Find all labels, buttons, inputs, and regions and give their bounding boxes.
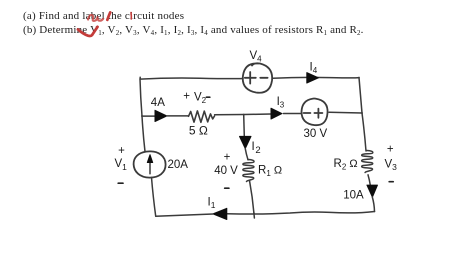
arrow 4A	[155, 110, 167, 121]
wire right vertical upper	[359, 78, 362, 114]
wire row2 segment a	[142, 115, 155, 117]
20A arrow inside	[149, 162, 151, 174]
svg-text:V3: V3	[385, 158, 398, 172]
V4 plus sign	[245, 72, 256, 84]
V4 minus sign	[260, 77, 267, 79]
30V minus sign	[304, 112, 311, 114]
svg-text:R1 Ω: R1 Ω	[258, 165, 282, 179]
junction node bottom wire / middle branch	[253, 212, 255, 214]
wire bottom horizontal right	[227, 212, 375, 215]
current source 20A	[134, 151, 166, 177]
svg-text:20A: 20A	[168, 159, 189, 171]
red tick over circuit	[130, 13, 132, 20]
arrow I4	[307, 73, 319, 83]
wire right-bottom corner	[372, 197, 374, 212]
svg-text:I2: I2	[252, 141, 261, 156]
svg-text:I3: I3	[277, 96, 285, 110]
wire top-right horizontal	[273, 76, 359, 79]
wire left vertical mid	[142, 116, 145, 152]
label V1 minus sign	[118, 182, 123, 184]
voltage source V4	[243, 63, 272, 93]
problem text line (b)	[23, 24, 364, 38]
wire right vertical mid	[362, 113, 366, 151]
wire row2 segment e	[329, 111, 362, 114]
svg-text:I1: I1	[208, 196, 216, 210]
arrow I3	[271, 108, 282, 119]
svg-text:+: +	[224, 152, 231, 164]
svg-text:4A: 4A	[151, 97, 165, 109]
resistor 5ohm zigzag	[189, 111, 215, 122]
wire mid branch to R1	[245, 148, 248, 159]
30V plus sign	[314, 109, 322, 118]
wire row2 segment c	[215, 113, 271, 116]
red slash over the	[107, 12, 110, 20]
resistor R1 coil	[243, 160, 254, 182]
svg-text:40 V: 40 V	[214, 165, 238, 177]
arrow I2	[240, 136, 252, 148]
wire mid branch lower	[250, 181, 255, 219]
arrow 10A	[367, 185, 378, 197]
svg-text:+: +	[183, 91, 190, 103]
svg-text:30 V: 30 V	[304, 128, 328, 140]
junction node row2 / right vertical	[361, 112, 363, 114]
svg-text:10A: 10A	[343, 189, 364, 201]
wire mid branch upper	[243, 115, 246, 137]
wire top-left horizontal	[140, 77, 243, 79]
wire right vertical lower	[368, 175, 370, 185]
wire left vertical lower	[152, 178, 156, 217]
svg-text:V4: V4	[250, 50, 263, 64]
voltage source 30V	[302, 99, 328, 126]
svg-text:V1: V1	[115, 158, 128, 172]
arrow I1	[213, 208, 227, 219]
wire row2 segment b	[167, 115, 189, 117]
wire bottom horizontal left	[156, 214, 213, 216]
resistor R2 coil	[362, 151, 373, 173]
junction node row2 / middle branch	[243, 114, 245, 116]
wire left vertical upper	[140, 79, 142, 116]
label 40V minus sign	[225, 187, 229, 189]
svg-text:5 Ω: 5 Ω	[189, 124, 208, 138]
svg-text:I4: I4	[310, 62, 318, 76]
svg-text:R2 Ω: R2 Ω	[334, 158, 358, 172]
problem text line (a)	[23, 10, 184, 23]
label V3 minus sign	[389, 181, 393, 183]
red checkmark over V1	[78, 27, 98, 36]
svg-text:+: +	[387, 144, 394, 156]
wire row2 segment d	[284, 113, 302, 115]
junction node row2 / left vertical	[141, 115, 143, 117]
red scribble over word label	[88, 15, 103, 21]
svg-text:V2: V2	[194, 91, 207, 105]
svg-text:+: +	[118, 145, 125, 157]
label V2 minus sign	[206, 96, 209, 98]
